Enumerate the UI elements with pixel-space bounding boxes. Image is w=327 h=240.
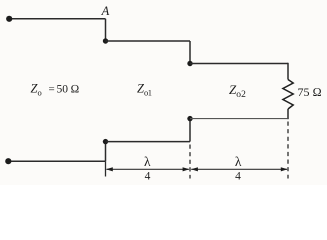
arrowhead right of second dimension bbox=[281, 167, 288, 171]
wire horizontal upper conductor Zo2 bbox=[190, 63, 288, 65]
extension line dashed at x=190 bbox=[189, 145, 191, 179]
svg-text:λ: λ bbox=[235, 154, 242, 169]
wire vertical step at x=190 lower bbox=[189, 119, 191, 142]
svg-text:Zo1: Zo1 bbox=[137, 82, 152, 98]
junction dot lower conductor Zo2 bbox=[187, 116, 192, 121]
wire bottom-left horizontal (input line, lower conductor) bbox=[8, 160, 105, 162]
svg-text:75 Ω: 75 Ω bbox=[298, 85, 322, 99]
arrowhead left of first dimension bbox=[106, 167, 113, 171]
dimension line lambda/4 first section bbox=[107, 168, 189, 170]
arrowhead right of first dimension bbox=[183, 167, 190, 171]
svg-text:Zo2: Zo2 bbox=[229, 82, 246, 100]
resistor 75 ohm load bbox=[283, 80, 293, 110]
wire vertical step at x=190 upper bbox=[189, 41, 191, 64]
wire vertical step at x=105.5 lower bbox=[105, 142, 107, 162]
wire resistor bottom lead bbox=[287, 109, 289, 119]
svg-text:A: A bbox=[101, 4, 110, 18]
svg-text:λ: λ bbox=[144, 154, 151, 169]
wire top-left horizontal (input line, upper conductor Z0) bbox=[9, 18, 106, 20]
terminal dot top-left bbox=[6, 16, 12, 22]
junction dot lower conductor Zo1 bbox=[103, 139, 108, 144]
wire horizontal lower conductor Zo2 (faint) bbox=[190, 118, 287, 120]
dimension line lambda/4 second section bbox=[191, 168, 287, 170]
svg-text:4: 4 bbox=[235, 171, 241, 183]
wire resistor top lead bbox=[287, 63, 289, 80]
junction dot node A lower bbox=[103, 38, 108, 43]
svg-text:Zo=50Ω: Zo=50Ω bbox=[31, 82, 80, 98]
wire vertical step at x=105.5 upper bbox=[105, 19, 107, 41]
svg-text:4: 4 bbox=[145, 171, 151, 183]
terminal dot bottom-left bbox=[5, 158, 11, 164]
extension line solid at x=105.5 bbox=[105, 161, 107, 176]
junction dot at Zo2 input bbox=[187, 61, 192, 66]
arrowhead left of second dimension bbox=[191, 167, 198, 171]
extension line dashed at x=288 bbox=[287, 122, 289, 179]
wire horizontal lower conductor Zo1 bbox=[106, 141, 191, 143]
wire horizontal upper conductor Zo1 bbox=[106, 40, 191, 42]
